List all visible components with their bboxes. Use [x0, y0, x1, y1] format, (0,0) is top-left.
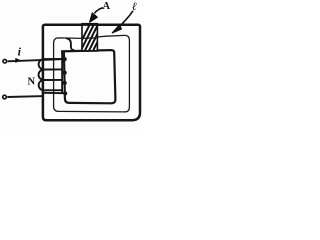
wire: mean path segment across hatch	[82, 37, 99, 40]
magnetic core: inner window boundary	[61, 50, 115, 103]
magnetic core: outer boundary	[43, 25, 140, 121]
svg-text:A: A	[103, 1, 111, 12]
junction dot at winding end	[63, 91, 67, 95]
current arrow i on top lead	[15, 58, 21, 63]
wire: bottom lead from T2	[7, 95, 44, 98]
wire: core top edge segment across hatch	[81, 24, 98, 26]
svg-text:N: N	[28, 77, 36, 88]
wire: window top edge segment across hatch	[82, 50, 99, 52]
terminal T1 (top)	[3, 59, 7, 63]
wire jog at window top-left corner	[66, 38, 75, 50]
wire: top lead from T1 to winding	[8, 59, 64, 61]
cross-section area A (hatched slab)	[73, 24, 119, 58]
winding N: inner chord line	[61, 52, 63, 93]
winding N: left-side turn arcs	[39, 59, 44, 90]
wire: bottom lead upper segment to winding	[42, 92, 63, 94]
mean path length l (dashed-thin flux path loop)	[54, 35, 130, 112]
leader arrow from label A to hatch	[95, 8, 104, 14]
terminal T2 (bottom)	[3, 95, 7, 99]
winding N: front wire turns	[44, 59, 63, 90]
winding N: rear turn loops (filled)	[62, 57, 66, 61]
leader arrow from label l to mean path	[121, 11, 134, 26]
